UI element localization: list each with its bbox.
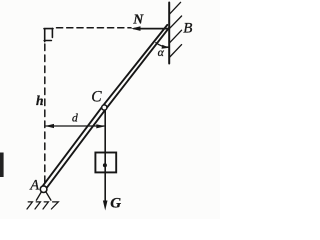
node C pin circle on rod <box>102 105 107 110</box>
svg-text:B: B <box>183 21 192 37</box>
svg-text:A: A <box>29 178 39 194</box>
component weight box hanging at C <box>95 153 116 173</box>
wire horizontal dashed construction line from right-angle marker to N arrow <box>57 27 132 29</box>
node G arrowhead <box>103 201 108 211</box>
wall hatching <box>170 2 182 57</box>
svg-text:G: G <box>110 196 121 212</box>
svg-text:C: C <box>91 88 102 105</box>
rod AB (double line) <box>42 25 168 187</box>
svg-text:α: α <box>158 45 165 59</box>
node A pin circle <box>40 186 47 193</box>
node A support legs <box>36 192 51 200</box>
svg-text:h: h <box>36 93 44 108</box>
node right-angle marker at top-left corner <box>44 28 53 41</box>
node d dimension line with outward arrows <box>46 125 104 127</box>
node angle alpha arc at B <box>156 43 169 48</box>
svg-text:N: N <box>132 12 144 27</box>
node center-of-gravity dot in weight box <box>103 163 107 167</box>
ground hatching at A <box>27 202 58 209</box>
wire vertical line from C down through weight to G arrow <box>104 110 106 202</box>
scan artifact bar at left edge <box>0 153 4 178</box>
force N arrow at B pointing left <box>134 28 169 30</box>
svg-text:d: d <box>72 113 78 125</box>
component wall at B (vertical line) <box>168 3 170 64</box>
wire vertical dashed construction line h from marker down to A <box>44 44 46 185</box>
